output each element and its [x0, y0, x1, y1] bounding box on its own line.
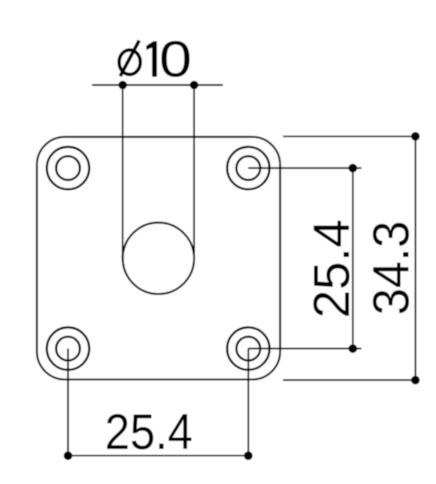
- extension line from bottom-right hole center: [248, 348, 361, 350]
- dot right end of phi10 dimension: [190, 81, 199, 90]
- dot bottom end right 25.4: [349, 344, 358, 353]
- dot left end of phi10 dimension: [118, 81, 127, 90]
- dot bottom end 34.3: [411, 376, 420, 385]
- extension line right tangent of center hole: [193, 85, 195, 258]
- dimension line 34.3 (far right vertical, plate size): [414, 136, 416, 380]
- label 10 : digit 1 (custom Arial-style, no foot): [146, 41, 157, 76]
- mounting hole bottom-right outer: [227, 327, 269, 369]
- dimension line phi10 (top horizontal): [92, 84, 223, 86]
- dot top end 34.3: [411, 132, 420, 141]
- extension line from plate top edge: [283, 135, 415, 137]
- mounting hole top-left outer: [47, 147, 89, 189]
- dot right end bottom 25.4: [244, 451, 253, 460]
- extension line from top-right hole center: [248, 167, 361, 169]
- mounting hole top-right outer: [227, 147, 269, 189]
- extension line from bottom-left hole center: [67, 349, 69, 456]
- plate outline (rounded square): [37, 137, 280, 380]
- svg-text:25.4: 25.4: [303, 219, 360, 318]
- extension line left tangent of center hole: [122, 85, 124, 258]
- svg-text:34.3: 34.3: [363, 221, 420, 315]
- mounting hole top-left inner: [56, 156, 80, 180]
- svg-text:0: 0: [159, 31, 192, 88]
- extension line from bottom-right hole center: [247, 349, 249, 456]
- dimension line 25.4 (right vertical, hole pitch): [352, 168, 354, 349]
- dot left end bottom 25.4: [64, 451, 73, 460]
- extension line from plate bottom edge: [283, 379, 415, 381]
- mounting hole bottom-left outer: [47, 327, 89, 369]
- mounting hole bottom-right inner: [236, 337, 260, 361]
- mounting hole bottom-left inner: [56, 337, 80, 361]
- dimension line 25.4 (bottom horizontal, hole pitch): [68, 455, 248, 457]
- label phi symbol: [119, 40, 140, 76]
- mounting hole top-right inner: [236, 156, 260, 180]
- dot top end right 25.4: [349, 164, 358, 173]
- svg-text:25.4: 25.4: [105, 404, 193, 460]
- center jack hole circle: [123, 223, 194, 294]
